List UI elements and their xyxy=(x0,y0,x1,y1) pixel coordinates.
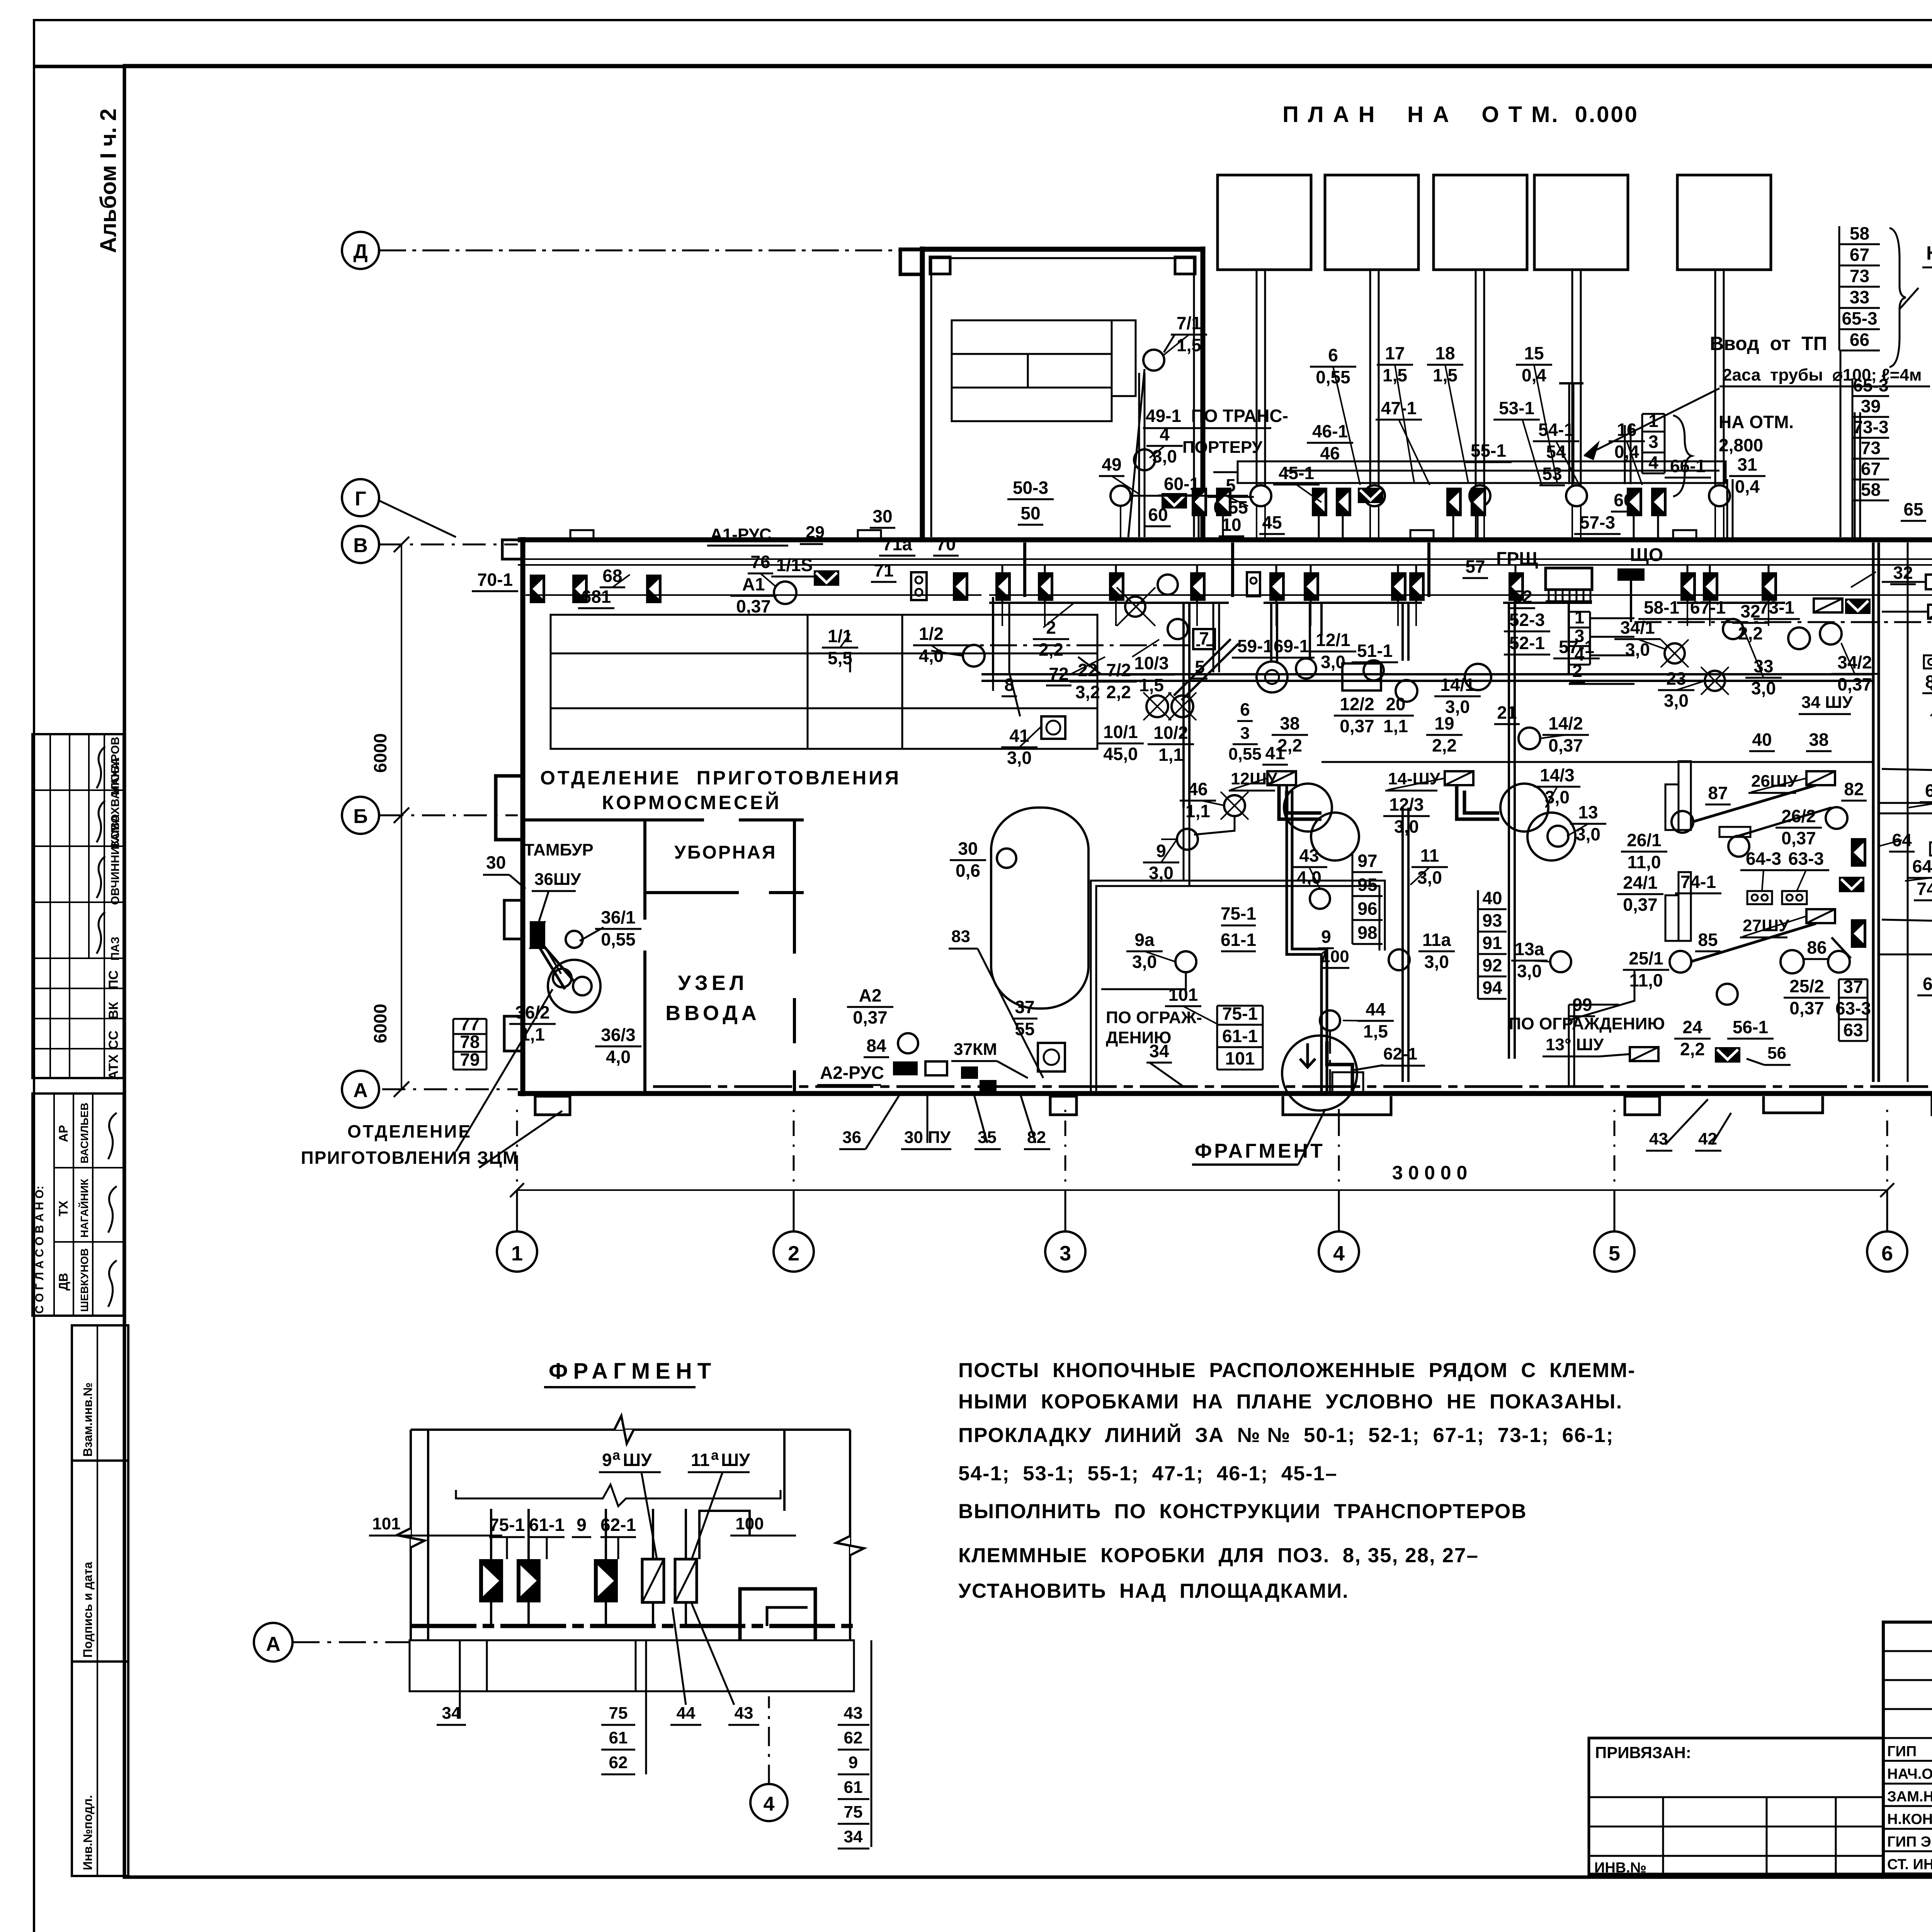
leader 36/2 down xyxy=(456,989,553,1151)
device 60-1 env xyxy=(1162,493,1187,509)
fragment arrow xyxy=(1300,1043,1315,1067)
left wall porch B xyxy=(496,776,523,840)
label 25/1 11,0 xyxy=(1623,948,1669,990)
label 16/0,4 xyxy=(1609,420,1645,462)
svg-text:29: 29 xyxy=(806,523,825,542)
svg-text:ФРАГМЕНТ: ФРАГМЕНТ xyxy=(549,1359,716,1384)
svg-text:36/3: 36/3 xyxy=(601,1025,636,1045)
svg-text:30: 30 xyxy=(958,838,978,859)
device 59 xyxy=(1269,572,1285,601)
fence right area xyxy=(1568,1005,1570,1087)
label 46-1/46 xyxy=(1307,421,1353,463)
motor M11a xyxy=(1389,949,1410,970)
fragment circle 4 xyxy=(750,1696,787,1821)
label 70-1 xyxy=(472,570,518,591)
svg-text:98: 98 xyxy=(1357,922,1377,942)
svg-text:0,37: 0,37 xyxy=(1340,716,1374,736)
svg-text:13: 13 xyxy=(1578,802,1598,822)
label 31/0,4 xyxy=(1729,454,1765,497)
fragment circle step conduit xyxy=(1327,1041,1352,1093)
svg-text:СС: СС xyxy=(106,1031,121,1049)
wire 62-1 drop xyxy=(1329,1031,1331,1094)
button 71 xyxy=(911,572,927,600)
svg-text:6: 6 xyxy=(1240,699,1250,719)
label 70t xyxy=(933,534,959,556)
svg-text:ДВ: ДВ xyxy=(56,1273,70,1291)
svg-text:12ШУ: 12ШУ xyxy=(1231,769,1277,788)
svg-text:46: 46 xyxy=(1320,443,1340,463)
svg-text:47-1: 47-1 xyxy=(1381,398,1417,418)
cabinet 36ShU xyxy=(530,921,545,949)
label 24/1 0,37 xyxy=(1617,872,1663,915)
svg-text:24/1: 24/1 xyxy=(1623,872,1658,893)
motor M20 xyxy=(1364,660,1384,680)
svg-text:1,1: 1,1 xyxy=(1158,745,1183,765)
fragment title xyxy=(544,1359,716,1387)
motor M74-1 xyxy=(1728,836,1749,857)
svg-text:18: 18 xyxy=(1435,343,1455,363)
motor M43 xyxy=(1310,889,1330,909)
motor M10/2 xyxy=(1172,696,1193,717)
device 53x low xyxy=(1627,488,1642,516)
device 50-1b low xyxy=(1216,488,1231,516)
tall section top wall xyxy=(922,247,1203,252)
svg-text:74-1: 74-1 xyxy=(1680,872,1716,892)
fragment wall right outer xyxy=(849,1430,851,1640)
svg-text:41: 41 xyxy=(1265,743,1285,763)
device 46y low xyxy=(1336,488,1351,516)
label 38 r xyxy=(1806,730,1832,751)
label 22/3,2 xyxy=(1070,660,1106,702)
svg-text:64: 64 xyxy=(1892,830,1912,850)
panel GRShch xyxy=(1546,568,1592,601)
device 51 xyxy=(1391,572,1406,601)
device 52 xyxy=(1509,572,1524,601)
cabinet 39a-ShU xyxy=(1928,605,1932,619)
motor M34/2 xyxy=(1820,623,1842,645)
49-1 cable drop xyxy=(1138,373,1140,537)
svg-text:93: 93 xyxy=(1482,910,1502,930)
svg-text:70-1: 70-1 xyxy=(477,570,513,590)
svg-text:ПС: ПС xyxy=(106,970,121,989)
label 14/1 3,0 xyxy=(1434,675,1481,717)
fragment axis A xyxy=(254,1623,410,1662)
label 36/3 4,0 xyxy=(595,1025,641,1067)
label 32b xyxy=(1890,563,1916,584)
fragment right stack xyxy=(838,1640,871,1849)
label 74-1 xyxy=(1675,872,1721,893)
axis line B xyxy=(380,815,518,816)
svg-text:82: 82 xyxy=(1027,1128,1046,1147)
label 57 xyxy=(1463,556,1488,578)
svg-text:101: 101 xyxy=(372,1514,400,1533)
svg-text:67: 67 xyxy=(1850,245,1869,265)
svg-text:3,0: 3,0 xyxy=(1576,824,1600,844)
svg-text:37КМ: 37КМ xyxy=(954,1040,997,1059)
svg-text:43: 43 xyxy=(1299,845,1319,866)
label 9a/3,0 xyxy=(1126,930,1163,972)
device 73-1 xyxy=(1762,572,1777,601)
svg-text:49: 49 xyxy=(1102,454,1121,474)
cabinet 13ShU box xyxy=(1630,1047,1658,1061)
label 1/1S xyxy=(771,555,818,577)
svg-text:3,0: 3,0 xyxy=(1394,816,1419,837)
conduit 12 xyxy=(1279,785,1321,819)
device 46x low xyxy=(1312,488,1327,516)
label 62-1 xyxy=(1352,1044,1425,1070)
label 68 xyxy=(600,566,625,587)
label 13ShU xyxy=(1543,1035,1630,1056)
left wall pilaster low2 xyxy=(504,1016,523,1051)
label 75-1 61-1 mid xyxy=(1221,903,1256,951)
label 8t xyxy=(1002,675,1017,696)
dimension 30000 xyxy=(517,1189,1887,1191)
wire diag 22 xyxy=(1078,657,1101,674)
svg-text:58: 58 xyxy=(1850,223,1869,243)
label GRShch xyxy=(1496,549,1538,569)
svg-text:61-1: 61-1 xyxy=(1221,930,1256,950)
svg-text:71: 71 xyxy=(874,560,893,580)
svg-text:71а: 71а xyxy=(883,534,912,554)
svg-text:53: 53 xyxy=(1542,464,1562,484)
stack 1/3/4 r xyxy=(1569,607,1590,665)
motor M12 xyxy=(1296,658,1316,679)
svg-text:А1: А1 xyxy=(742,574,765,594)
svg-text:73-3: 73-3 xyxy=(1853,417,1888,437)
svg-text:3,0: 3,0 xyxy=(1007,748,1032,768)
bottom dashdot bus xyxy=(653,1085,1932,1088)
svg-text:3,0: 3,0 xyxy=(1664,690,1689,711)
svg-text:97: 97 xyxy=(1357,850,1377,871)
bin pipe 3 xyxy=(1476,270,1484,485)
label 58-1 xyxy=(1638,597,1685,619)
svg-text:ОТДЕЛЕНИЕ: ОТДЕЛЕНИЕ xyxy=(347,1121,472,1141)
svg-text:0,37: 0,37 xyxy=(1789,998,1824,1018)
svg-text:КЛЕММНЫЕ КОРОБКИ ДЛЯ ПОЗ.: КЛЕММНЫЕ КОРОБКИ ДЛЯ ПОЗ. 8, 35, 28, 27– xyxy=(958,1544,1479,1567)
vvod ot TP drop xyxy=(1568,383,1570,484)
bottom protrusion right xyxy=(1764,1096,1823,1113)
label 43/4,0 xyxy=(1291,845,1327,888)
label 5/0,55 xyxy=(1207,475,1254,517)
fragment label 9 xyxy=(572,1515,591,1537)
label 45-1 xyxy=(1273,463,1320,485)
label po ograzhdeniyu right xyxy=(1509,1014,1665,1033)
label 10/2 1,1 xyxy=(1148,723,1194,765)
svg-text:27ШУ: 27ШУ xyxy=(1743,916,1789,935)
wire 58-66 drop xyxy=(1840,350,1842,537)
fragment break top xyxy=(614,1416,634,1444)
label 56-1 xyxy=(1727,1017,1774,1039)
stamp box inv xyxy=(72,1662,128,1876)
wire 64-2 h xyxy=(1879,802,1932,804)
dashdot y1670 xyxy=(947,645,1213,646)
grid bubble 6 xyxy=(1867,1109,1907,1272)
motor M86a xyxy=(1781,950,1804,973)
label 41b xyxy=(1262,743,1288,765)
label 15/0,4 xyxy=(1516,343,1552,385)
fragment bus thick xyxy=(411,1624,854,1628)
svg-text:3,0: 3,0 xyxy=(1517,961,1542,981)
drops from device row xyxy=(1002,597,1003,603)
platform r1 xyxy=(1665,761,1691,830)
cabinet 27ShU box xyxy=(1806,909,1835,923)
svg-text:55-1: 55-1 xyxy=(1471,440,1506,461)
svg-text:ВАСИЛЬЕВ: ВАСИЛЬЕВ xyxy=(78,1103,90,1163)
motor MA2 xyxy=(898,1033,918,1053)
svg-text:1/2: 1/2 xyxy=(919,624,944,644)
motor M14/2 xyxy=(1519,728,1540,749)
motor M bin 4 xyxy=(1566,485,1587,506)
outside label otdelenie ZCM xyxy=(301,1111,562,1168)
label 13a/3,0 xyxy=(1511,939,1548,981)
svg-text:2,2: 2,2 xyxy=(1039,639,1063,660)
svg-text:56-1: 56-1 xyxy=(1733,1017,1768,1037)
svg-text:С О Г Л А С О В А Н О:: С О Г Л А С О В А Н О: xyxy=(33,1186,46,1314)
label 18/1,5 xyxy=(1427,343,1463,385)
label 69-1 xyxy=(1268,636,1315,658)
GRShch drop xyxy=(1568,603,1570,674)
svg-text:10/3: 10/3 xyxy=(1134,653,1169,673)
device 63 box xyxy=(1851,919,1866,948)
brace 58-66 xyxy=(1889,228,1918,367)
motor M13 xyxy=(1548,826,1568,847)
fragment device stems down xyxy=(490,1602,492,1626)
label 12ShU xyxy=(1229,769,1277,791)
label 37KM xyxy=(951,1040,1028,1078)
svg-text:69-1: 69-1 xyxy=(1274,636,1309,656)
bin 5 xyxy=(1677,175,1771,270)
svg-text:1,5: 1,5 xyxy=(1177,335,1201,355)
svg-text:45-1: 45-1 xyxy=(1279,463,1314,483)
box A2-RUS xyxy=(893,1061,918,1075)
fragment device stems up xyxy=(490,1509,492,1559)
motor M24 xyxy=(1717,984,1738,1005)
label 101 low xyxy=(1165,985,1201,1006)
fragment platform band xyxy=(410,1640,854,1691)
svg-text:30: 30 xyxy=(872,506,892,526)
notes paragraph xyxy=(958,1359,1636,1602)
label 26ShU xyxy=(1748,772,1798,793)
svg-text:4: 4 xyxy=(1160,424,1170,444)
label 2/2,2 xyxy=(1033,617,1069,660)
stack 1/3/4 xyxy=(1642,411,1665,473)
label 34/1 3,0 xyxy=(1614,617,1661,660)
chute 10 xyxy=(1174,639,1238,700)
label fragment plan xyxy=(1192,1109,1325,1165)
svg-text:4: 4 xyxy=(1333,1242,1345,1265)
svg-text:63-2: 63-2 xyxy=(1923,974,1932,994)
top wall notches xyxy=(570,530,594,540)
svg-text:2,2: 2,2 xyxy=(1106,682,1131,702)
svg-text:50-3: 50-3 xyxy=(1013,478,1048,498)
box 41 xyxy=(1041,716,1065,739)
wire 39KM link xyxy=(1882,581,1926,583)
label 34 low xyxy=(1146,1041,1172,1063)
svg-text:25/1: 25/1 xyxy=(1629,948,1663,968)
stamp box podpis xyxy=(72,1461,128,1662)
wire 8 down xyxy=(992,674,994,691)
gather line right2 xyxy=(1677,602,1785,604)
label 52 xyxy=(1510,587,1535,608)
device 50 extra xyxy=(953,572,968,601)
svg-text:66: 66 xyxy=(1850,330,1869,350)
leader 36/1 xyxy=(580,927,604,941)
cabinet 14ShU xyxy=(1445,771,1473,785)
bottom protrusion fragment xyxy=(1283,1096,1391,1115)
svg-text:73-1: 73-1 xyxy=(1759,597,1794,617)
bin pipe 2 xyxy=(1370,270,1379,485)
svg-text:3: 3 xyxy=(1648,432,1658,452)
label 55-1 xyxy=(1465,440,1512,462)
tall section right wall xyxy=(1201,247,1206,540)
svg-text:76: 76 xyxy=(750,552,770,572)
narrow rect next to bars upper xyxy=(1112,320,1136,396)
device 74 env xyxy=(1839,877,1864,892)
svg-text:66-1: 66-1 xyxy=(1670,456,1706,476)
label 14/2 0,37 xyxy=(1543,713,1589,755)
conduit center down xyxy=(1287,785,1321,1094)
svg-text:2,2: 2,2 xyxy=(1432,735,1457,755)
svg-text:34: 34 xyxy=(442,1704,461,1723)
equipment bars upper section xyxy=(952,320,1112,421)
svg-text:0,6: 0,6 xyxy=(956,861,980,881)
svg-text:Б: Б xyxy=(353,805,367,828)
svg-text:А: А xyxy=(353,1079,368,1102)
low row stubs xyxy=(1198,512,1200,540)
tall section corner notch left xyxy=(930,257,950,274)
svg-text:95: 95 xyxy=(1357,874,1377,895)
svg-text:75: 75 xyxy=(844,1803,863,1821)
label 10 xyxy=(1219,515,1244,536)
svg-text:Г: Г xyxy=(355,488,366,510)
stamp table soglasovano xyxy=(32,1094,124,1316)
svg-text:39: 39 xyxy=(1861,396,1881,416)
svg-text:46: 46 xyxy=(1188,779,1207,799)
label 50 xyxy=(1018,503,1043,525)
corridor line 2 xyxy=(518,564,1932,566)
svg-text:681: 681 xyxy=(582,587,611,607)
svg-text:43: 43 xyxy=(844,1704,863,1723)
partition stub uzel right xyxy=(794,891,804,894)
svg-text:3,0: 3,0 xyxy=(1445,697,1470,717)
svg-text:0,4: 0,4 xyxy=(1735,476,1760,497)
trunk vertical right pair xyxy=(1872,543,1875,1082)
label 82 r xyxy=(1841,779,1867,801)
label 50-3 xyxy=(1007,478,1054,499)
partition horizontal top rooms xyxy=(524,818,704,821)
box 51-1 xyxy=(1342,663,1381,690)
motor M30 xyxy=(997,849,1016,868)
wall left xyxy=(520,537,526,1096)
trunk x3905 pair xyxy=(1508,603,1510,1059)
tank xyxy=(991,808,1088,1009)
svg-text:75: 75 xyxy=(609,1704,628,1723)
label 9/3,0 xyxy=(1143,841,1179,883)
svg-text:5,5: 5,5 xyxy=(828,648,852,668)
fragment wall left outer xyxy=(410,1430,412,1640)
motor M48x xyxy=(1125,597,1145,617)
label 25/2 0,37 xyxy=(1784,976,1830,1018)
svg-text:9: 9 xyxy=(1321,927,1331,947)
stack 37 63-3 63 xyxy=(1835,977,1871,1041)
svg-text:ШУ: ШУ xyxy=(721,1450,750,1470)
equipment bars main hall xyxy=(551,615,1097,749)
motor M bin 5 xyxy=(1709,485,1730,506)
svg-text:ТАМБУР: ТАМБУР xyxy=(524,840,594,859)
svg-text:ГИП Э: ГИП Э xyxy=(1887,1834,1931,1850)
wire 65-3 drop xyxy=(1852,500,1854,540)
bin pipe 1 xyxy=(1257,270,1265,485)
label vvod ot TP xyxy=(1584,333,1930,460)
grid bubble В xyxy=(342,526,379,563)
device 50 xyxy=(995,572,1011,601)
svg-text:4: 4 xyxy=(1648,452,1658,473)
wire 46 to 9 xyxy=(1194,816,1235,835)
stack 75-1 61-1 101 xyxy=(1217,1003,1263,1070)
wire bins gather xyxy=(1131,495,1248,497)
svg-text:Подпись и дата: Подпись и дата xyxy=(81,1562,95,1658)
label 52-3 xyxy=(1504,610,1550,631)
svg-text:0,4: 0,4 xyxy=(1614,442,1639,462)
svg-text:ВЫПОЛНИТЬ ПО КОНСТРУКЦИИ ТР: ВЫПОЛНИТЬ ПО КОНСТРУКЦИИ ТРАНСПОРТЕРОВ xyxy=(958,1500,1527,1523)
svg-text:УБОРНАЯ: УБОРНАЯ xyxy=(674,842,777,863)
svg-text:ПАЗ: ПАЗ xyxy=(109,937,122,961)
wall bottom xyxy=(518,1091,1932,1096)
svg-text:5: 5 xyxy=(1609,1242,1620,1265)
label 86 xyxy=(1804,937,1830,959)
pump 59 xyxy=(1257,662,1287,692)
trough under bins xyxy=(1238,461,1726,483)
svg-text:3,0: 3,0 xyxy=(1424,952,1449,972)
label 30PU xyxy=(901,1094,951,1149)
fragment circle notch xyxy=(1332,1072,1363,1093)
label 81 xyxy=(1922,672,1932,693)
gather line right xyxy=(1503,602,1592,604)
svg-text:1: 1 xyxy=(511,1242,523,1265)
fragment step conduit xyxy=(740,1589,815,1640)
svg-text:14-ШУ: 14-ШУ xyxy=(1388,769,1440,788)
device 51b xyxy=(1409,572,1425,601)
trunk x3630 upper xyxy=(1401,603,1404,661)
label 59-1 xyxy=(1232,636,1278,658)
device 48-1 xyxy=(1190,572,1206,601)
svg-text:87: 87 xyxy=(1708,783,1728,803)
svg-text:9а: 9а xyxy=(1134,930,1155,950)
label 41/3,0 xyxy=(1001,726,1037,768)
wires 1-4 stubs xyxy=(1590,617,1634,619)
label 37/55 xyxy=(1012,997,1037,1039)
device 53y low xyxy=(1651,488,1667,516)
box right of A2 xyxy=(925,1061,947,1075)
label 11/3,0 xyxy=(1412,845,1448,888)
bin pipe 4 xyxy=(1572,270,1581,485)
label 38/2,2 xyxy=(1272,713,1308,755)
panel ShchO xyxy=(1617,568,1645,581)
svg-text:85: 85 xyxy=(1698,930,1718,950)
svg-text:101: 101 xyxy=(1168,985,1198,1005)
svg-text:24: 24 xyxy=(1682,1017,1702,1037)
label 24/2,2 xyxy=(1674,1017,1711,1059)
fragment label 101 xyxy=(369,1514,502,1536)
svg-text:92: 92 xyxy=(1482,955,1502,975)
label 10/1 45,0 xyxy=(1097,722,1144,764)
svg-text:ЩО: ЩО xyxy=(1630,545,1663,565)
svg-text:ПО ОГРАЖ-: ПО ОГРАЖ- xyxy=(1106,1008,1202,1027)
wire 26 diag xyxy=(1692,785,1832,836)
wire web top devices xyxy=(1002,603,1003,626)
label 64-3 r xyxy=(1907,856,1932,878)
svg-text:Альбом I ч. 2: Альбом I ч. 2 xyxy=(96,109,121,253)
